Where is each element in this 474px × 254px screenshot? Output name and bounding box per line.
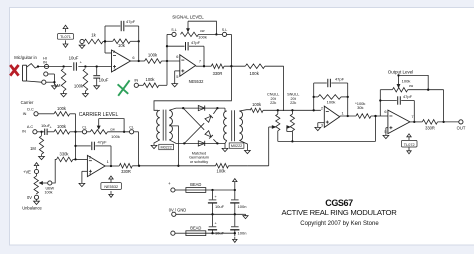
wiper unbalance [40, 182, 43, 185]
svg-text:30k: 30k [357, 105, 363, 110]
wire R3 to summing node [162, 60, 180, 62]
trimmer CNULL 22k [277, 110, 279, 114]
wire carrier row [132, 165, 215, 167]
wire null rail [278, 140, 376, 142]
wire OL right down [443, 90, 445, 122]
svg-text:100k: 100k [250, 71, 260, 76]
svg-text:BEAD: BEAD [190, 225, 201, 230]
wire R14 to pin2 [73, 158, 88, 160]
wire R10 to node [70, 113, 76, 115]
transformer T1 right winding [169, 110, 172, 140]
resistor R22 100k U5 feedback [313, 83, 315, 110]
svg-text:100k: 100k [198, 35, 207, 40]
ground mid rail [243, 213, 246, 215]
wire R11 to node [70, 131, 83, 133]
wire PSU plus [175, 189, 186, 191]
resistor R12 1M carrier [41, 132, 43, 136]
pad DC IN [34, 112, 38, 116]
wire U5 out [340, 115, 356, 117]
svg-text:10uF: 10uF [69, 56, 79, 61]
resistor 100k input [83, 69, 88, 92]
capacitor C8 47pF U6 feedback [380, 100, 397, 102]
op-amp U6 TL072 [388, 110, 410, 134]
svg-text:6: 6 [384, 109, 386, 114]
ground T2 left [224, 143, 226, 148]
svg-text:1M: 1M [55, 83, 61, 88]
pad AC IN [33, 130, 37, 134]
trimmer SNULL 22k [291, 110, 293, 114]
svg-text:100k: 100k [148, 53, 158, 58]
svg-text:NE5532: NE5532 [189, 79, 205, 84]
ground 1M [61, 94, 67, 97]
svg-text:100k: 100k [217, 169, 227, 174]
wire summing rail U5 [263, 109, 321, 111]
power symbol TL071 [65, 29, 67, 33]
wire R5 to node [159, 84, 167, 86]
capacitor C12 100n [234, 214, 236, 226]
resistor R19 100k [250, 108, 263, 112]
wire SL to output node [227, 33, 232, 35]
wire OL bracket [399, 75, 429, 89]
op-amp U1 TL071 [112, 50, 131, 72]
wire carrier to CNULL wiper [268, 127, 270, 166]
pad SL right [222, 32, 226, 36]
wire AC in [37, 131, 40, 133]
svg-text:22k: 22k [270, 101, 276, 105]
svg-text:100k: 100k [45, 190, 53, 194]
capacitor 10uF shunt [96, 67, 98, 76]
jack terminal sleeve [42, 80, 46, 84]
potentiometer CARRIER LEVEL 100k [87, 131, 91, 133]
svg-text:IN: IN [43, 60, 47, 65]
svg-text:100k: 100k [57, 106, 67, 111]
svg-text:or schottky: or schottky [190, 160, 208, 164]
wiper CARRIER LEVEL [98, 119, 100, 126]
wire null rail riser [375, 116, 377, 141]
wiper Output Level [398, 75, 400, 84]
wire DC in [38, 113, 54, 115]
capacitor C6 47pF carrier fb [76, 145, 91, 147]
transformer T2 right winding [239, 111, 242, 140]
svg-text:10uF: 10uF [215, 204, 225, 209]
wire minus rail [206, 232, 235, 234]
pad PSU plus [171, 188, 175, 192]
wire SL right [199, 33, 223, 35]
ground 0V [36, 199, 38, 201]
svg-text:3: 3 [113, 67, 115, 72]
svg-text:6: 6 [176, 54, 178, 59]
resistor R16 330R carrier [119, 164, 132, 169]
svg-text:CNULL: CNULL [267, 92, 279, 96]
capacitor C5 10uF carrier [44, 129, 46, 135]
svg-text:M0222: M0222 [231, 144, 242, 148]
svg-text:100k: 100k [111, 134, 120, 139]
resistor R5 100k 2nd input [138, 84, 143, 86]
svg-text:M0222: M0222 [161, 145, 172, 149]
wire carrier row right [229, 165, 248, 167]
wire T1 right top to ring [169, 108, 183, 110]
power arrow +VE [36, 166, 38, 169]
pad CL right [130, 130, 134, 134]
wire CL bracket [99, 119, 124, 132]
wire U3 plus to ground [82, 170, 88, 172]
wire T2 right bottom to ground [239, 140, 247, 150]
svg-text:cw: cw [200, 29, 205, 33]
power arrow +V rail [234, 182, 236, 184]
resistor R7 100k [245, 64, 265, 69]
resistor 1k [84, 39, 103, 44]
svg-text:330R: 330R [425, 126, 435, 131]
svg-text:A.C: A.C [27, 125, 34, 129]
svg-text:SNULL: SNULL [287, 92, 299, 96]
resistor R3 100k [145, 59, 162, 64]
wire ring top rail [183, 107, 225, 109]
wire T1 right bottom to ring [169, 140, 184, 144]
svg-text:CL: CL [129, 126, 134, 130]
svg-text:+: + [168, 181, 171, 186]
op-amp U3 NE5532 [87, 155, 105, 176]
ground T1 [151, 145, 157, 148]
svg-text:3: 3 [321, 123, 323, 128]
svg-text:3: 3 [89, 171, 91, 176]
svg-text:0V: 0V [27, 195, 32, 200]
svg-text:2: 2 [321, 106, 323, 111]
svg-text:100k: 100k [146, 77, 156, 82]
svg-text:1: 1 [107, 159, 109, 164]
resistor R11 100k AC [47, 131, 54, 133]
potentiometer Output Level 100k [380, 89, 392, 91]
svg-text:S.L: S.L [171, 28, 176, 32]
svg-text:7: 7 [411, 114, 413, 119]
wire U5 feedback right [347, 83, 349, 116]
resistor R2 10k feedback [105, 40, 113, 42]
wire U2 plus to ground [175, 70, 180, 72]
wire U3 out [105, 165, 119, 167]
resistor R23 100k/30k [356, 114, 371, 119]
wire plus rail [206, 189, 235, 191]
wire U5 plus to ground [318, 122, 325, 124]
svg-text:47pF: 47pF [97, 140, 107, 145]
wire U6 fb left [379, 90, 381, 116]
svg-text:330R: 330R [121, 169, 131, 174]
node SL vertical [166, 34, 168, 85]
potentiometer unbalance 100k [36, 174, 38, 177]
svg-text:10k: 10k [118, 43, 126, 48]
wire main input line [38, 66, 72, 68]
svg-text:Carrier: Carrier [21, 100, 34, 105]
svg-text:IN: IN [23, 112, 27, 116]
svg-text:0V / GND: 0V / GND [169, 207, 187, 212]
transformer T2 left winding [224, 111, 227, 140]
transformer T1 left winding [157, 110, 160, 140]
op-amp U5 TL072 [324, 106, 339, 127]
svg-text:330R: 330R [213, 71, 223, 76]
wire U1 feedback right [138, 26, 140, 61]
svg-text:100n: 100n [238, 204, 247, 209]
svg-text:IN: IN [134, 78, 138, 83]
svg-text:2: 2 [113, 49, 115, 54]
wire jack ring to sleeve bus [48, 73, 55, 75]
svg-text:IN: IN [22, 129, 26, 133]
wire CL right [108, 131, 130, 133]
diode D3 on diagonal A [205, 131, 211, 137]
wire to transformer T1 [154, 66, 231, 110]
svg-text:1M: 1M [30, 146, 36, 151]
capacitor C2 47pF op2 feedback [167, 45, 185, 47]
wire ring bottom rail [184, 142, 225, 144]
diode D1 top [198, 106, 204, 111]
wiper SIGNAL LEVEL [187, 21, 189, 28]
wire CL to 330R node [134, 131, 139, 133]
wire 1k to node [103, 41, 105, 43]
ground T2 right [245, 150, 251, 153]
svg-text:6: 6 [132, 55, 134, 60]
resistor R14 330k [57, 157, 73, 162]
capacitor C9 10uF [212, 190, 214, 199]
svg-text:CARRIER LEVEL: CARRIER LEVEL [79, 112, 119, 118]
wire ring diagonal A [183, 108, 204, 130]
wire R7 to summing2 [265, 65, 284, 67]
svg-text:CL: CL [82, 126, 87, 130]
pad PSU 0V [172, 212, 176, 216]
wire T1 left bottom to ground [154, 140, 160, 146]
svg-text:7: 7 [199, 58, 201, 63]
svg-text:5: 5 [176, 74, 178, 79]
ground jack [52, 86, 58, 89]
svg-text:BEAD: BEAD [190, 182, 201, 187]
resistor R10 100k DC [54, 112, 70, 117]
svg-text:Output Level: Output Level [388, 70, 414, 75]
wiper CNULL [272, 126, 275, 129]
label M0222 T1 [159, 144, 174, 149]
wire U2 out [196, 65, 212, 67]
svg-text:+VE: +VE [23, 169, 31, 174]
svg-text:1: 1 [342, 110, 344, 115]
pad unbalance wiper [48, 181, 52, 185]
svg-text:TL071: TL071 [60, 35, 71, 39]
capacitor C10 100n [234, 190, 236, 199]
svg-text:22k: 22k [290, 101, 296, 105]
svg-text:cw: cw [409, 84, 414, 88]
svg-text:cw: cw [110, 127, 115, 131]
green X annotation [118, 80, 129, 96]
svg-text:100k: 100k [402, 79, 411, 84]
svg-text:SIGNAL LEVEL: SIGNAL LEVEL [172, 15, 204, 20]
diode D2 on diagonal B [205, 116, 211, 122]
red X annotation [10, 65, 18, 76]
wire T1 center tap [169, 126, 178, 166]
svg-text:S.L: S.L [222, 28, 227, 32]
svg-text:OUT: OUT [457, 126, 466, 131]
jack J1 mic/guitar [22, 65, 24, 81]
svg-text:100k: 100k [57, 124, 67, 129]
svg-text:ACTIVE REAL RING MODULATOR: ACTIVE REAL RING MODULATOR [281, 208, 397, 217]
wiper SNULL [287, 126, 290, 129]
transformer T2 core [231, 110, 233, 141]
wire ring diagonal B [184, 123, 204, 143]
svg-text:D.C: D.C [27, 108, 34, 112]
power symbol TL072 [408, 137, 410, 140]
resistor R18 100k ring [216, 164, 229, 169]
wire U1 pin2 [105, 52, 112, 54]
capacitor 10uF input [73, 62, 75, 70]
jack terminal tip [44, 64, 48, 68]
svg-text:47pF: 47pF [191, 40, 201, 45]
wire to OUT [438, 121, 459, 123]
svg-text:100k: 100k [252, 102, 262, 107]
wire T2 right top to R19 [239, 110, 250, 111]
jack terminal ring [44, 72, 48, 76]
ground shunt cap [94, 86, 100, 89]
potentiometer SIGNAL LEVEL 100k [181, 32, 199, 36]
svg-text:47pF: 47pF [335, 77, 345, 82]
resistor 1M input [61, 69, 66, 92]
wire U6 out [410, 121, 422, 123]
transformer T1 core [162, 110, 164, 141]
wire jack sleeve [46, 81, 55, 83]
pad CL left [82, 130, 86, 134]
label M0222 T2 [229, 143, 244, 148]
svg-text:47pF: 47pF [126, 19, 136, 24]
wire R23 to U6 [371, 115, 388, 117]
wire U6 fb right [413, 101, 415, 122]
ground 1M carrier [41, 154, 43, 156]
wire U6 plus to ground [386, 127, 388, 129]
wire U1 out [131, 60, 145, 62]
pad PSU minus [171, 231, 175, 235]
wire SL bracket [188, 21, 216, 34]
wire SL left [167, 33, 172, 35]
svg-text:CGS67: CGS67 [325, 198, 353, 208]
power symbol NE5532 [110, 179, 112, 182]
resistor R25 330R out [422, 120, 437, 125]
terminal 1k ground [80, 39, 84, 43]
wire mid rail [176, 213, 243, 215]
capacitor C7 47pF U5 feedback [314, 82, 327, 84]
svg-text:100k: 100k [74, 83, 84, 88]
capacitor C1 47pF [105, 25, 120, 27]
wire PSU minus [175, 232, 186, 234]
pad OUT [459, 120, 463, 124]
svg-text:Copyright 2007 by Ken Stone: Copyright 2007 by Ken Stone [300, 221, 379, 227]
ground 100k input [83, 94, 89, 97]
wire ring to T2 top [224, 108, 226, 111]
wire T2 left bottom [225, 140, 227, 143]
svg-text:TL072: TL072 [404, 143, 415, 147]
svg-text:Unbalance: Unbalance [22, 205, 42, 210]
wire after 10uF [78, 66, 111, 68]
wire wiper to 330k [52, 159, 57, 183]
capacitor C11 10uF [212, 214, 214, 226]
svg-text:Mic/guitar in: Mic/guitar in [14, 55, 37, 60]
svg-text:NE5532: NE5532 [104, 185, 118, 189]
svg-text:330k: 330k [60, 151, 70, 156]
svg-text:100k: 100k [327, 99, 336, 104]
wire 330R to node [224, 65, 245, 67]
svg-text:10uF: 10uF [99, 78, 109, 83]
svg-text:100n: 100n [238, 231, 247, 236]
resistor R6 330R [211, 64, 224, 69]
diode D4 bottom [198, 141, 204, 146]
svg-text:2: 2 [89, 155, 91, 160]
pad SL left [172, 32, 176, 36]
power arrow -V rail [234, 233, 236, 236]
svg-text:47pF: 47pF [403, 94, 413, 99]
op-amp U2 NE5532 [180, 55, 196, 77]
